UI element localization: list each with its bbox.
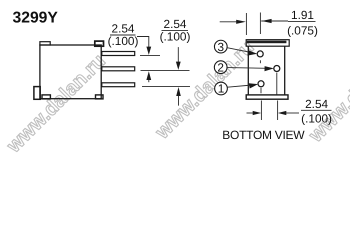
side view top-right tab — [95, 41, 104, 46]
centerline dash below pin 3 — [259, 60, 261, 63]
top dim left arrow pointing right — [220, 21, 237, 23]
dimension text 2.54/(.100) second — [160, 17, 191, 44]
bottom view top band — [246, 40, 289, 47]
extension line lead3 — [142, 85, 190, 87]
circled number 1 — [215, 82, 228, 95]
centerline dash below pin 1 — [260, 88, 262, 93]
svg-text:3299Y: 3299Y — [13, 10, 59, 27]
lead 2 (middle) — [102, 67, 135, 71]
pin 3 circle — [257, 51, 263, 57]
bottom dim extension line left — [260, 101, 262, 121]
svg-text:(.100): (.100) — [301, 112, 332, 126]
circled number 3 — [214, 40, 227, 53]
bottom dim left arrow — [247, 112, 254, 114]
fraction bar 1 — [110, 34, 136, 36]
bottom view right edge — [284, 46, 286, 95]
side view right foot — [96, 95, 104, 99]
fraction bar bottom — [301, 109, 332, 111]
dimension text 1.91/(.075) — [287, 8, 318, 37]
svg-text:(.100): (.100) — [160, 29, 191, 43]
lead 3 (bottom) — [102, 83, 135, 87]
dim1 elbow leader with down arrow — [137, 37, 149, 48]
fraction bar 1.91 — [288, 21, 316, 23]
top dim line with left arrow — [261, 20, 288, 22]
svg-text:(.075): (.075) — [287, 24, 318, 38]
side view top-left tab — [40, 42, 50, 45]
dimension text 2.54/(.100) first — [108, 22, 139, 49]
bottom view bottom band — [246, 95, 288, 99]
fraction bar 2 — [162, 30, 189, 32]
leader from 3 to pin 3 — [227, 48, 251, 53]
pin 2 circle — [274, 66, 280, 72]
svg-text:2: 2 — [217, 60, 224, 74]
centerline below pin 2 — [276, 73, 278, 95]
svg-text:2.54: 2.54 — [305, 97, 328, 111]
dimension text 2.54/(.100) bottom — [301, 97, 332, 125]
top dim extension line at band left edge — [245, 13, 247, 35]
dim2 down arrow — [177, 47, 179, 62]
side view left-bottom tab — [34, 87, 40, 100]
svg-text:BOTTOM VIEW: BOTTOM VIEW — [222, 128, 305, 142]
circled number 2 — [214, 61, 227, 74]
extension line lead1 — [140, 54, 160, 56]
dim2 up arrow — [176, 87, 181, 96]
leader from 2 to pin 2 — [227, 67, 268, 70]
svg-text:3: 3 — [218, 40, 225, 54]
bottom dim extension line right — [277, 101, 279, 121]
svg-text:(.100): (.100) — [108, 34, 139, 48]
side view left foot — [42, 95, 50, 99]
top dim extension line at pin column — [259, 13, 261, 35]
svg-text:1: 1 — [218, 82, 225, 96]
bottom dim right arrow — [278, 111, 287, 115]
dim1 up arrow — [146, 71, 151, 80]
leader from 1 to pin 1 — [227, 85, 252, 87]
svg-text:1.91: 1.91 — [291, 8, 314, 22]
lead 1 (top) — [102, 52, 135, 56]
extension line lead2 — [141, 69, 190, 71]
pin 1 circle — [258, 81, 264, 87]
top band slot bar — [247, 41, 287, 44]
side view body — [40, 45, 101, 99]
bottom view left edge — [247, 46, 249, 95]
